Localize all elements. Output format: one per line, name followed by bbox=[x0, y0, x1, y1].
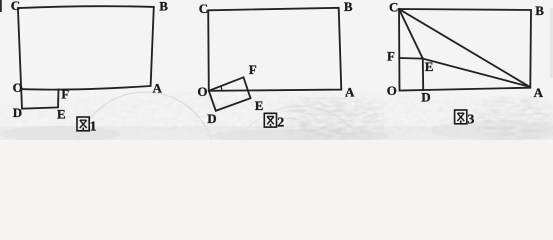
watermark circle arc bbox=[75, 92, 215, 232]
scan grain overlay bbox=[0, 92, 553, 140]
svg-text:D: D bbox=[207, 111, 216, 126]
paper background bbox=[0, 0, 553, 140]
svg-text:3: 3 bbox=[467, 112, 474, 127]
caption 图1 bbox=[77, 117, 89, 131]
segment EA fig3 bbox=[423, 59, 530, 87]
segment DE fig3 bbox=[422, 59, 424, 90]
svg-text:F: F bbox=[61, 86, 69, 101]
diagonal CA fig3 bbox=[399, 9, 530, 87]
svg-text:C: C bbox=[199, 1, 208, 16]
svg-text:E: E bbox=[255, 98, 264, 113]
svg-text:B: B bbox=[344, 0, 353, 14]
caption 图2 bbox=[264, 113, 276, 127]
svg-text:F: F bbox=[387, 48, 395, 63]
svg-text:2: 2 bbox=[277, 116, 284, 131]
rectangle OABC fig1 bbox=[18, 6, 154, 89]
svg-text:O: O bbox=[197, 84, 207, 99]
small rectangle ODEF fig1 bbox=[21, 89, 58, 109]
svg-text:C: C bbox=[11, 0, 20, 13]
bottom scan mottling bbox=[0, 126, 553, 140]
svg-text:D: D bbox=[13, 105, 22, 120]
svg-text:B: B bbox=[159, 0, 168, 13]
left edge dark mark bbox=[0, 0, 2, 12]
rectangle OABC fig2 bbox=[208, 8, 341, 91]
svg-text:O: O bbox=[13, 80, 23, 95]
caption 图3 bbox=[455, 110, 467, 124]
svg-text:D: D bbox=[421, 89, 430, 104]
bleed-through text noise bottom right bbox=[284, 97, 384, 140]
right edge grey smear bbox=[550, 8, 553, 78]
rectangle OABC fig3 bbox=[399, 9, 531, 91]
svg-text:A: A bbox=[153, 81, 163, 96]
svg-text:C: C bbox=[389, 0, 398, 15]
angle arc at O fig2 bbox=[220, 86, 223, 90]
svg-text:A: A bbox=[345, 85, 355, 100]
svg-text:F: F bbox=[249, 62, 257, 77]
segment FE fig3 bbox=[399, 57, 423, 60]
watermark circle arc 2 bbox=[228, 106, 372, 240]
svg-text:O: O bbox=[387, 83, 397, 98]
svg-text:E: E bbox=[57, 106, 66, 121]
svg-text:E: E bbox=[425, 59, 434, 74]
svg-text:B: B bbox=[535, 3, 544, 18]
rotated small rectangle ODEF fig2 bbox=[209, 77, 251, 111]
segment CE fig3 bbox=[399, 9, 423, 59]
svg-text:1: 1 bbox=[90, 119, 97, 134]
svg-text:A: A bbox=[534, 85, 544, 100]
